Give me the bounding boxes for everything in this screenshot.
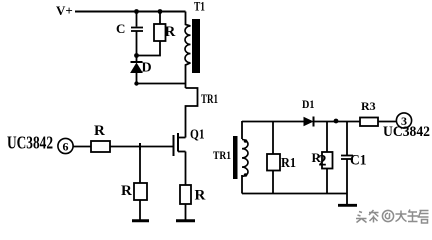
resistor R gate series (91, 123, 110, 152)
label TR1 primary (201, 91, 218, 106)
capacitor C (116, 21, 143, 36)
wire R2 to bottom rail (326, 169, 328, 194)
wire cap C branch (136, 12, 138, 27)
wire divider R to ground (139, 200, 141, 220)
transformer T1 core bar (192, 19, 200, 73)
diode D (131, 61, 152, 76)
transformer T1 primary winding (185, 12, 191, 89)
svg-text:R: R (94, 123, 105, 139)
svg-text:TR1: TR1 (213, 148, 231, 162)
wire cap C bottom to snubber node (136, 32, 138, 62)
wire R1 to bottom rail (272, 171, 274, 194)
svg-text:T1: T1 (194, 0, 205, 14)
label UC3842 left (7, 133, 53, 153)
capacitor C1 branch (346, 122, 348, 156)
svg-text:6: 6 (63, 140, 69, 154)
svg-text:TR1: TR1 (201, 91, 218, 106)
wire diode D bottom to primary bottom rail (137, 73, 186, 84)
svg-text:R: R (165, 24, 176, 40)
label T1 (194, 0, 205, 14)
wire Q1 source lead (185, 152, 187, 186)
wire gate rail (110, 146, 174, 148)
resistor R2 adjustable (312, 150, 333, 170)
transistor Q1 MOSFET (174, 128, 205, 157)
svg-text:V+: V+ (56, 3, 73, 18)
node V+ (56, 3, 73, 18)
diode D1 (302, 97, 315, 127)
node junction dot snubber (134, 53, 139, 58)
wire secondary top rail (242, 121, 304, 123)
resistor R1 branch (272, 121, 274, 154)
wire snubber R bottom lead to node (137, 41, 161, 56)
wire top rail from V+ to T1 primary (75, 11, 186, 13)
transformer TR1 core bar (233, 136, 238, 179)
svg-text:Q1: Q1 (190, 128, 205, 143)
resistor R2 branch (326, 121, 328, 152)
node junction dot before C1 (334, 119, 339, 124)
svg-text:UC3842: UC3842 (7, 133, 53, 153)
svg-text:UC3842: UC3842 (383, 124, 430, 140)
resistor R source (180, 185, 206, 204)
svg-text:R1: R1 (281, 156, 296, 171)
svg-text:D1: D1 (302, 97, 315, 111)
svg-text:D: D (142, 61, 152, 76)
node gate junction (139, 143, 141, 150)
pin 3 circle (396, 113, 411, 128)
resistor R gate divider (121, 183, 147, 200)
ground under source resistor (176, 219, 195, 222)
wire source R to ground (185, 204, 187, 220)
wire secondary bottom rail (242, 193, 347, 195)
svg-text:R3: R3 (361, 99, 376, 113)
wire snubber R top lead (159, 12, 161, 25)
ground right side (338, 204, 357, 207)
transformer TR1 secondary winding (242, 121, 248, 194)
wire C1 to bottom rail (346, 160, 348, 194)
wire bottom rail to ground (346, 194, 348, 205)
svg-text:C: C (116, 21, 125, 36)
capacitor C1 (341, 153, 367, 169)
resistor R3 (360, 99, 378, 126)
node junction dot cap C top (134, 9, 139, 14)
node junction dot diode bottom (134, 81, 138, 85)
transformer TR1 primary loop (186, 88, 198, 138)
pin 6 circle (58, 138, 73, 153)
svg-text:C1: C1 (350, 153, 367, 169)
wire pin6 to gate resistor (73, 146, 91, 148)
svg-text:2: 2 (319, 153, 327, 170)
node junction dot snubber R top (158, 9, 163, 14)
watermark toutiao da nian jun (drawn strokes) (356, 210, 429, 224)
ground under divider resistor (132, 219, 149, 222)
resistor R snubber (154, 24, 176, 41)
svg-text:R: R (121, 183, 132, 199)
wire R3 to pin 3 (378, 121, 397, 123)
wire D1 cathode to R3 (314, 121, 361, 123)
resistor R1 (267, 154, 296, 171)
label UC3842 right (383, 124, 430, 140)
wire gate node down to divider R (139, 147, 141, 184)
svg-text:R: R (195, 188, 206, 204)
label TR1 secondary (213, 148, 231, 162)
